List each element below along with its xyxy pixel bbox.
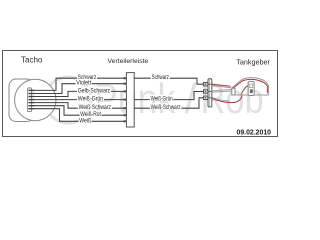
svg-text:09.02.2010: 09.02.2010 <box>237 129 272 136</box>
svg-text:Tacho: Tacho <box>21 56 43 65</box>
svg-text:Gelb-Schwarz: Gelb-Schwarz <box>78 87 110 94</box>
svg-text:Weiß-Grün: Weiß-Grün <box>78 96 104 103</box>
svg-text:Schwarz: Schwarz <box>152 74 169 81</box>
svg-text:Weiß-Grün: Weiß-Grün <box>151 96 173 103</box>
svg-text:Tankgeber: Tankgeber <box>236 57 270 66</box>
svg-text:Weiß-Schwarz: Weiß-Schwarz <box>79 104 111 111</box>
svg-text:Weiß: Weiß <box>79 117 91 124</box>
svg-text:Violett: Violett <box>76 80 91 87</box>
svg-text:Weiß-Schwarz: Weiß-Schwarz <box>151 104 181 111</box>
svg-text:Verteilerleiste: Verteilerleiste <box>108 58 149 65</box>
